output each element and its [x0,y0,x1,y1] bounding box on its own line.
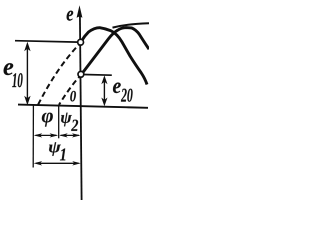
e20 label e [113,83,121,94]
e20 dimension arrow [103,78,105,100]
sine curve 2 solid part [81,28,149,75]
e-axis arrowhead [77,5,83,18]
psi1 dimension arrow [36,162,79,164]
e20 label 20 [121,89,133,102]
psi1 label 1 [60,149,65,161]
phi label [42,113,53,127]
horizontal time axis [18,105,148,108]
psi2 dimension arrow [61,134,80,136]
psi1 label psi [49,142,61,156]
dashed pre-zero part of curve 1 [38,45,79,105]
vertical e-axis [80,13,82,200]
psi2 label psi [61,113,72,127]
e20 level line [84,74,112,77]
origin label 0 [70,91,76,102]
sine curve 1 solid part [82,28,148,85]
psi2 label 2 [71,120,78,131]
phi dimension arrow [36,134,57,136]
e10 dimension arrow [26,46,28,100]
amplitude guide line top right [113,23,150,27]
axis label e [67,11,74,21]
extension line at -psi1 [32,106,34,168]
point e10 on axis (circle) [78,39,84,45]
dashed pre-zero part of curve 2 [59,77,79,105]
e10 level line [15,41,78,42]
point e20 on axis (circle) [78,71,84,77]
e10 label e [4,63,14,75]
extension line at -psi2 [58,106,60,139]
e10 label 10 [12,73,22,87]
